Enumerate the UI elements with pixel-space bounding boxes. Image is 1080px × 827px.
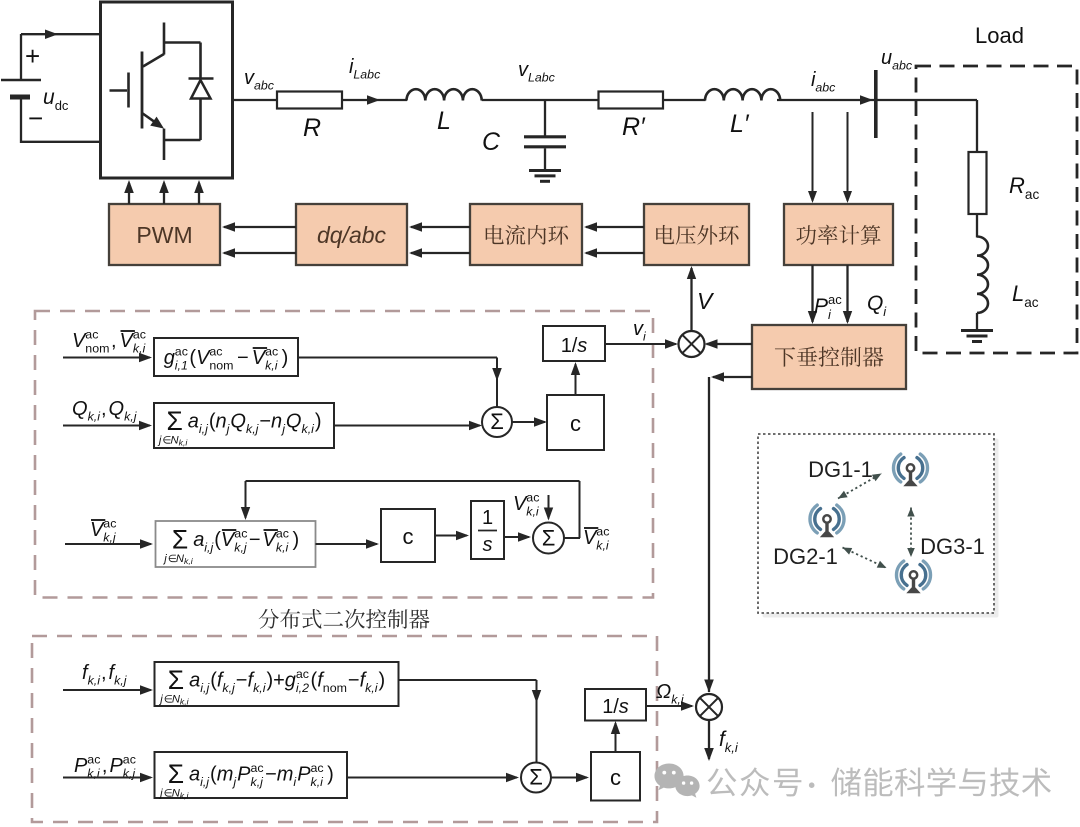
svg-text:nom: nom bbox=[209, 359, 233, 373]
svg-text:k,i: k,i bbox=[88, 410, 102, 424]
svg-text:a: a bbox=[189, 764, 200, 786]
arrow into gain block bbox=[63, 357, 150, 359]
wire fblock to sum3 bbox=[399, 679, 537, 681]
svg-text:R′: R′ bbox=[622, 113, 646, 141]
svg-text:u: u bbox=[43, 86, 55, 109]
multiplier f bbox=[696, 694, 722, 720]
svg-text:nom: nom bbox=[85, 342, 109, 356]
wire sum2 output bbox=[564, 537, 580, 539]
svg-text:abc: abc bbox=[892, 59, 913, 73]
ground of C bbox=[529, 169, 561, 172]
arrows power-calc to droop bbox=[811, 265, 813, 322]
svg-text:i,j: i,j bbox=[199, 422, 209, 436]
arrow into P block bbox=[63, 777, 151, 779]
wire sum1 to c1 bbox=[512, 421, 545, 423]
wire Qblock to sum1 bbox=[334, 425, 480, 427]
svg-text:ac: ac bbox=[828, 292, 842, 307]
svg-text:Σ: Σ bbox=[172, 524, 188, 554]
ground of load bbox=[961, 329, 993, 332]
svg-text:1/: 1/ bbox=[561, 335, 578, 357]
svg-text:Q: Q bbox=[109, 398, 125, 420]
svg-text:k,j: k,j bbox=[234, 541, 248, 555]
integrator 1-over-s block bbox=[471, 501, 504, 559]
svg-text:,: , bbox=[101, 662, 107, 684]
svg-text:R: R bbox=[303, 114, 321, 142]
svg-text:DG1-1: DG1-1 bbox=[808, 457, 873, 482]
svg-text:dc: dc bbox=[55, 98, 69, 113]
resistor R bbox=[277, 92, 342, 109]
IGBT emitter bbox=[142, 113, 158, 124]
inductor L' bbox=[705, 89, 780, 100]
svg-text:k,i: k,i bbox=[180, 791, 190, 801]
svg-text:P: P bbox=[110, 755, 124, 777]
wire L to R' bbox=[482, 99, 599, 101]
wire L' to bus bbox=[777, 99, 875, 101]
svg-text:k,i: k,i bbox=[725, 740, 739, 755]
svg-text:i,j: i,j bbox=[200, 681, 210, 695]
svg-text:P: P bbox=[814, 295, 828, 318]
svg-text:ac: ac bbox=[596, 525, 609, 539]
svg-text:)+: )+ bbox=[267, 670, 285, 692]
svg-text:m: m bbox=[217, 764, 234, 786]
svg-text:ac: ac bbox=[251, 761, 264, 775]
gain block g bbox=[154, 338, 298, 376]
wire R' to L' bbox=[663, 99, 706, 101]
svg-text:V: V bbox=[697, 288, 715, 314]
dq/abc block bbox=[296, 204, 407, 265]
wire integrator3 to multiplier f bbox=[646, 705, 692, 707]
f consensus block bbox=[155, 662, 399, 706]
svg-text:Load: Load bbox=[975, 23, 1024, 48]
svg-text:s: s bbox=[483, 534, 493, 556]
svg-text:PWM: PWM bbox=[136, 222, 192, 248]
svg-text:i,1: i,1 bbox=[175, 359, 188, 373]
PWM block bbox=[109, 204, 220, 265]
svg-text:ac: ac bbox=[526, 491, 539, 505]
svg-text:c: c bbox=[570, 411, 581, 436]
resistor R_ac bbox=[969, 152, 987, 214]
svg-text:abc: abc bbox=[815, 81, 836, 95]
svg-text:−: − bbox=[259, 411, 271, 433]
svg-text:L: L bbox=[437, 107, 451, 135]
arrow Vki into sum2 bbox=[548, 495, 550, 519]
DG network shadow bbox=[763, 439, 999, 618]
svg-text:u: u bbox=[881, 47, 892, 69]
arrows voltage-loop to current-loop bbox=[586, 226, 644, 228]
arrows dq/abc to PWM bbox=[224, 226, 296, 228]
wire diode to emitter bbox=[164, 139, 201, 142]
svg-text:ac: ac bbox=[276, 527, 289, 541]
svg-text:k,i: k,i bbox=[365, 681, 379, 695]
svg-text:k,j: k,j bbox=[114, 674, 128, 688]
svg-text:P: P bbox=[74, 755, 88, 777]
svg-text:n: n bbox=[271, 411, 282, 433]
svg-text:Q: Q bbox=[286, 411, 302, 433]
link DG1-DG3 bbox=[910, 508, 912, 558]
svg-text:dq/abc: dq/abc bbox=[317, 222, 387, 248]
svg-text:Σ: Σ bbox=[529, 765, 543, 790]
wire Lac to ground bbox=[976, 313, 978, 330]
summer 1 bbox=[482, 407, 512, 437]
svg-text:L′: L′ bbox=[730, 110, 750, 138]
svg-text:k,i: k,i bbox=[302, 422, 316, 436]
svg-text:ac: ac bbox=[296, 667, 309, 681]
svg-text:,: , bbox=[101, 398, 107, 420]
svg-text:k,j: k,j bbox=[124, 410, 138, 424]
svg-text:C: C bbox=[482, 128, 501, 156]
svg-text:i,j: i,j bbox=[204, 541, 214, 555]
svg-text:): ) bbox=[327, 764, 334, 786]
wire Rac to Lac bbox=[976, 214, 978, 238]
svg-text:nom: nom bbox=[323, 681, 347, 695]
wire integrator2 to sum2 bbox=[504, 536, 529, 538]
summer 3 bbox=[521, 763, 551, 793]
DG network dotted box bbox=[758, 434, 994, 613]
svg-text:a: a bbox=[188, 411, 199, 433]
inductor L_ac bbox=[977, 237, 988, 313]
svg-text:k,i: k,i bbox=[253, 681, 267, 695]
Q consensus block bbox=[154, 403, 334, 448]
svg-text:−: − bbox=[28, 103, 43, 133]
svg-text:DG3-1: DG3-1 bbox=[920, 534, 985, 559]
inductor L bbox=[407, 89, 482, 100]
svg-text:abc: abc bbox=[254, 79, 275, 93]
svg-text:Σ: Σ bbox=[168, 665, 184, 695]
arrow into Q block bbox=[63, 425, 150, 427]
svg-text:s: s bbox=[577, 335, 587, 357]
wire sum3 to c3 bbox=[551, 777, 587, 779]
svg-text:m: m bbox=[277, 764, 294, 786]
droop controller block bbox=[752, 325, 906, 389]
svg-text:i,2: i,2 bbox=[296, 681, 309, 695]
secondary f controller dashed box bbox=[32, 636, 657, 822]
arrow into bus bbox=[860, 95, 873, 105]
antenna DG1 bbox=[893, 454, 900, 482]
wire R to L bbox=[342, 99, 407, 101]
svg-text:+: + bbox=[25, 41, 40, 71]
svg-text:,: , bbox=[102, 755, 108, 777]
wire battery- to inverter bbox=[21, 141, 100, 143]
svg-text:Q: Q bbox=[230, 411, 246, 433]
integrator 1/s block bbox=[543, 326, 605, 361]
svg-text:g: g bbox=[285, 670, 296, 692]
arrow droop to multiplier bbox=[707, 343, 753, 345]
svg-text:R: R bbox=[1009, 173, 1025, 198]
svg-text:P: P bbox=[237, 764, 251, 786]
svg-text:i,j: i,j bbox=[200, 775, 210, 789]
arrows PWM to inverter bbox=[128, 183, 130, 204]
svg-text:ac: ac bbox=[133, 328, 146, 342]
svg-text:k,i: k,i bbox=[265, 359, 279, 373]
caption distributed secondary controller bbox=[259, 609, 430, 629]
arrow into V consensus block bbox=[65, 543, 151, 545]
svg-text:k,i: k,i bbox=[88, 674, 102, 688]
svg-text:−: − bbox=[265, 764, 277, 786]
svg-text:ac: ac bbox=[1024, 295, 1039, 310]
capacitor C bbox=[524, 135, 566, 138]
capacitor C branch wire bbox=[544, 100, 546, 136]
svg-text:−: − bbox=[249, 529, 261, 551]
svg-text:k,j: k,j bbox=[103, 531, 117, 545]
arrow c1 to integrator1 bbox=[575, 364, 577, 395]
gain c1 block bbox=[547, 395, 604, 450]
svg-text:Labc: Labc bbox=[353, 68, 381, 82]
arrow i_Labc bbox=[367, 95, 380, 105]
svg-text:Σ: Σ bbox=[542, 525, 556, 550]
svg-text:k,i: k,i bbox=[184, 556, 194, 566]
svg-text:ac: ac bbox=[234, 527, 247, 541]
svg-text:c: c bbox=[610, 765, 621, 790]
gain c2 block bbox=[381, 509, 435, 562]
svg-text:ac: ac bbox=[175, 345, 188, 359]
arrow c3 to integrator3 bbox=[615, 723, 617, 752]
arrow multiplier f output bbox=[708, 720, 710, 759]
svg-text:Labc: Labc bbox=[528, 71, 556, 85]
wire Pblock to sum3 bbox=[347, 777, 517, 779]
svg-text:s: s bbox=[619, 696, 629, 718]
arrow multiplier to voltage-loop bbox=[690, 268, 692, 331]
svg-text:ac: ac bbox=[265, 345, 278, 359]
svg-text:k,i: k,i bbox=[276, 541, 290, 555]
svg-text:k,i: k,i bbox=[311, 775, 325, 789]
gain c3 block bbox=[591, 752, 640, 801]
svg-text:−: − bbox=[236, 670, 248, 692]
voltage outer loop block bbox=[644, 204, 749, 265]
svg-text:k,j: k,j bbox=[246, 422, 260, 436]
svg-text:k,i: k,i bbox=[671, 693, 685, 707]
svg-text:a: a bbox=[193, 529, 204, 551]
svg-text:ac: ac bbox=[87, 753, 100, 767]
svg-text:): ) bbox=[379, 670, 386, 692]
summer 2 bbox=[533, 523, 564, 554]
svg-text:,: , bbox=[111, 330, 117, 352]
svg-text:k,i: k,i bbox=[596, 539, 610, 553]
wire bus to load bbox=[877, 99, 977, 101]
svg-text:k,i: k,i bbox=[180, 697, 190, 707]
wechat icon bbox=[655, 763, 684, 790]
svg-text:Σ: Σ bbox=[167, 406, 183, 436]
link DG1-DG2 bbox=[838, 474, 882, 499]
integrator 1/s f block bbox=[585, 689, 646, 721]
resistor R' bbox=[599, 92, 664, 109]
watermark text bbox=[708, 767, 802, 796]
IGBT gate bbox=[127, 73, 130, 108]
bus bar u_abc bbox=[874, 70, 878, 138]
svg-text:k,j: k,j bbox=[251, 775, 265, 789]
svg-text:−: − bbox=[348, 670, 360, 692]
svg-text:): ) bbox=[315, 411, 322, 433]
droop frequency output wire bbox=[713, 376, 752, 378]
svg-text:): ) bbox=[293, 529, 300, 551]
arrow on dc wire bbox=[45, 30, 58, 40]
svg-text:ac: ac bbox=[85, 328, 98, 342]
svg-text:L: L bbox=[1012, 281, 1024, 306]
IGBT body bar bbox=[141, 52, 144, 129]
taps from line to power calc bbox=[812, 112, 814, 201]
arrow into f block bbox=[63, 689, 151, 691]
svg-text:P: P bbox=[297, 764, 311, 786]
svg-text:−: − bbox=[237, 347, 249, 369]
svg-text:a: a bbox=[189, 670, 200, 692]
svg-text:Σ: Σ bbox=[490, 409, 504, 434]
svg-text:c: c bbox=[403, 524, 414, 549]
feedback wire to V consensus block bbox=[579, 481, 581, 538]
svg-text:k,i: k,i bbox=[526, 505, 540, 519]
svg-text:k,i: k,i bbox=[179, 438, 189, 448]
svg-text:ac: ac bbox=[209, 345, 222, 359]
diode branch wire bbox=[164, 41, 201, 44]
load dashed box bbox=[916, 66, 1077, 353]
wire gain to sum1 bbox=[298, 357, 497, 359]
svg-text:Σ: Σ bbox=[168, 759, 184, 789]
V consensus block bbox=[156, 521, 316, 567]
svg-text:ac: ac bbox=[123, 753, 136, 767]
multiplier V bbox=[679, 331, 705, 357]
wire integrator1 to multiplier bbox=[605, 343, 676, 345]
wire inverter to R bbox=[233, 99, 279, 101]
svg-text:g: g bbox=[164, 347, 175, 369]
svg-text:ac: ac bbox=[103, 517, 116, 531]
wire battery+ to inverter bbox=[21, 33, 100, 35]
inverter box bbox=[101, 2, 233, 178]
secondary controller dashed box bbox=[35, 311, 653, 598]
wire Vblock to c2 bbox=[316, 543, 378, 545]
P consensus block bbox=[155, 752, 348, 798]
svg-text:Q: Q bbox=[867, 292, 883, 315]
svg-text:ac: ac bbox=[1025, 187, 1040, 202]
power calculation block bbox=[784, 204, 893, 265]
svg-text:DG2-1: DG2-1 bbox=[773, 544, 838, 569]
link DG2-DG3 bbox=[843, 548, 887, 569]
svg-text:1: 1 bbox=[482, 507, 493, 529]
battery u_dc bbox=[1, 79, 41, 82]
svg-text:): ) bbox=[282, 347, 289, 369]
svg-text:k,j: k,j bbox=[222, 681, 236, 695]
svg-text:Q: Q bbox=[72, 398, 88, 420]
svg-text:1/: 1/ bbox=[602, 696, 619, 718]
current inner loop block bbox=[470, 204, 582, 265]
wire c2 to integrator2 bbox=[435, 535, 467, 537]
diode D1 bbox=[189, 77, 214, 80]
svg-text:n: n bbox=[216, 411, 227, 433]
IGBT collector bbox=[163, 23, 166, 55]
antenna DG2 bbox=[810, 505, 817, 533]
arrows current-loop to dq/abc bbox=[411, 226, 470, 228]
antenna DG3 bbox=[896, 561, 903, 589]
svg-text:ac: ac bbox=[311, 761, 324, 775]
svg-text:Ω: Ω bbox=[656, 681, 671, 703]
